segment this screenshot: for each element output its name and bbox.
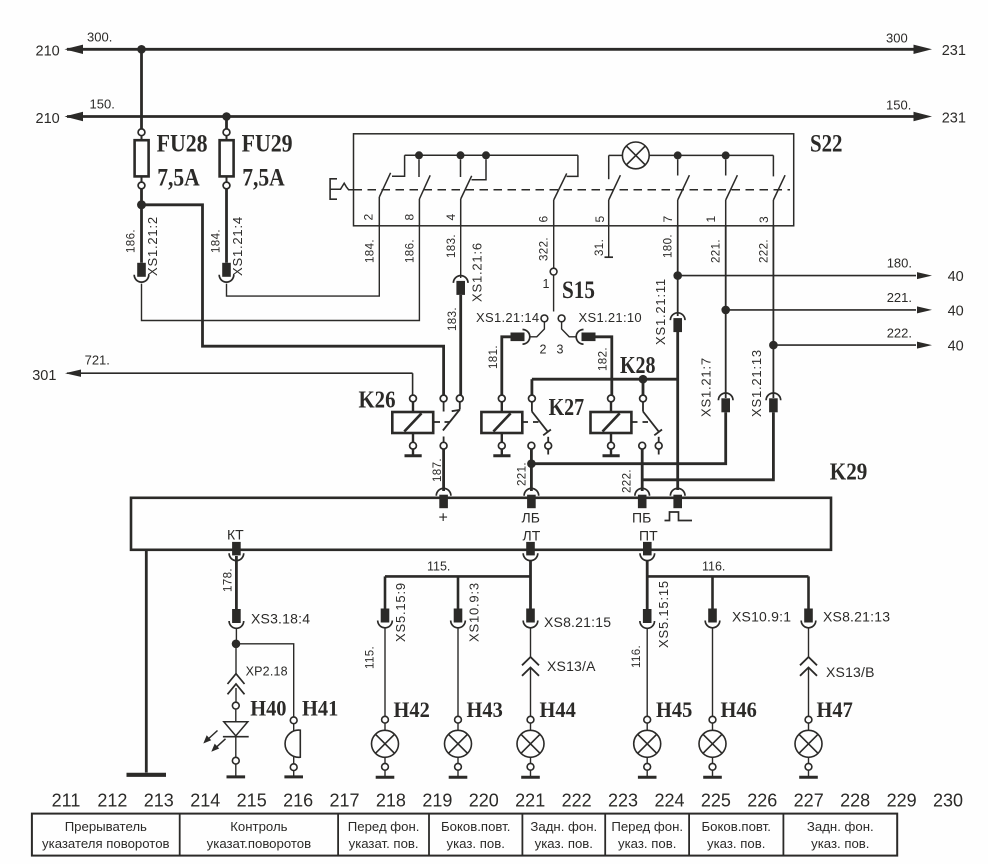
K28 contact blade bbox=[631, 402, 662, 435]
svg-text:223: 223 bbox=[608, 791, 638, 811]
svg-text:2: 2 bbox=[362, 214, 376, 221]
svg-text:224: 224 bbox=[654, 791, 684, 811]
svg-text:1: 1 bbox=[543, 277, 550, 291]
svg-text:301: 301 bbox=[32, 368, 56, 384]
wire from S15 pin 2 to XS1.21:14 bbox=[530, 322, 545, 337]
svg-text:XS1.21:10: XS1.21:10 bbox=[579, 310, 642, 325]
svg-text:187.: 187. bbox=[432, 458, 444, 482]
coordinate ruler 211-230 bbox=[52, 791, 963, 811]
connector XS1.21:14 bbox=[511, 330, 530, 345]
wire 222. to node 40 (right arrow) bbox=[773, 342, 932, 349]
svg-text:4: 4 bbox=[444, 214, 458, 221]
S22 switch contact 5 bbox=[609, 155, 621, 225]
wire 116. to H45 bbox=[646, 628, 648, 716]
wire branch H46 from bus 116 bbox=[711, 576, 714, 608]
node dot bus-pin1 bbox=[722, 151, 730, 159]
svg-text:H42: H42 bbox=[394, 697, 430, 722]
svg-text:150.: 150. bbox=[886, 98, 911, 113]
svg-text:183.: 183. bbox=[446, 234, 458, 258]
svg-text:211: 211 bbox=[52, 791, 81, 811]
wire XS3.18:4 to junction bbox=[235, 628, 237, 644]
svg-text:222.: 222. bbox=[887, 325, 912, 340]
wire to H46 bbox=[712, 628, 714, 717]
flasher unit K29 box bbox=[131, 498, 831, 550]
svg-text:Перед фон.: Перед фон. bbox=[611, 819, 683, 834]
svg-text:2: 2 bbox=[540, 343, 547, 357]
pulse waveform symbol bbox=[665, 512, 693, 521]
terminal 31. of S22 pin 5 bbox=[605, 226, 614, 257]
connector K29 + terminal bbox=[436, 488, 451, 508]
S22 switch contact 3 bbox=[773, 155, 785, 225]
K26 coil top pin bbox=[410, 395, 417, 402]
connector XS5.15:9 bbox=[378, 609, 393, 628]
junction dot 180. bbox=[673, 271, 682, 280]
svg-text:212: 212 bbox=[97, 791, 127, 811]
svg-text:3: 3 bbox=[757, 216, 771, 223]
svg-text:218: 218 bbox=[376, 791, 406, 811]
bus 115 bbox=[385, 575, 531, 578]
connector K29 pulse input terminal bbox=[670, 488, 685, 508]
connector XS3.18:4 bbox=[229, 609, 244, 628]
svg-text:229: 229 bbox=[887, 791, 917, 811]
svg-text:указ. пов.: указ. пов. bbox=[707, 836, 765, 851]
svg-text:7,5A: 7,5A bbox=[157, 164, 200, 191]
svg-text:K29: K29 bbox=[830, 460, 868, 486]
switch block S22 box bbox=[354, 134, 794, 226]
svg-text:Задн. фон.: Задн. фон. bbox=[807, 819, 874, 834]
relay K26 bbox=[359, 388, 464, 456]
svg-text:221.: 221. bbox=[887, 290, 912, 305]
svg-text:181.: 181. bbox=[488, 345, 500, 369]
svg-text:указ. пов.: указ. пов. bbox=[618, 836, 676, 851]
junction dot H40/H41 bbox=[232, 640, 241, 649]
svg-text:H40: H40 bbox=[250, 696, 286, 721]
svg-text:225: 225 bbox=[701, 791, 731, 811]
lamp H45 bbox=[634, 716, 661, 770]
K27 coil top pin bbox=[498, 395, 505, 402]
K27 contact common pin bbox=[529, 395, 536, 402]
legend table bbox=[32, 814, 897, 856]
K27 contact NO pin bbox=[545, 442, 552, 449]
ground (main) bbox=[127, 773, 167, 777]
svg-text:7: 7 bbox=[661, 216, 675, 223]
svg-text:Перед фон.: Перед фон. bbox=[348, 819, 420, 834]
svg-text:40: 40 bbox=[948, 269, 964, 285]
S22 switch contact 4 bbox=[461, 159, 487, 226]
svg-text:3: 3 bbox=[557, 343, 564, 357]
connector XS8.21:15 bbox=[523, 609, 538, 628]
svg-text:Задн. фон.: Задн. фон. bbox=[530, 819, 597, 834]
ground (H47) bbox=[799, 770, 818, 777]
node dot bus-pin7 bbox=[674, 151, 682, 159]
connector K29 PB terminal bbox=[635, 488, 650, 508]
K28 coil bottom pin bbox=[608, 442, 615, 449]
S22 switch contact 2 bbox=[379, 155, 404, 226]
K26 coil bottom pin bbox=[410, 442, 417, 449]
wire 322. from S22 pin 6 to S15 bbox=[553, 226, 555, 268]
fuse FU28 bbox=[135, 129, 149, 263]
svg-text:H45: H45 bbox=[656, 697, 692, 722]
wire 115. to H42 bbox=[384, 628, 386, 717]
svg-text:XS3.18:4: XS3.18:4 bbox=[251, 611, 310, 627]
wire 182. from XS1.21:10 to K28 coil (thick) bbox=[596, 337, 612, 395]
svg-text:31.: 31. bbox=[594, 239, 606, 256]
connector XS1.21:13 bbox=[766, 393, 781, 412]
svg-text:322.: 322. bbox=[539, 237, 551, 261]
wire XS8.21:13 to XS13/B bbox=[808, 628, 810, 657]
svg-text:XS1.21:13: XS1.21:13 bbox=[749, 349, 764, 417]
K26 contact blade pin bbox=[456, 395, 463, 402]
svg-text:XS5.15:9: XS5.15:9 bbox=[393, 582, 408, 642]
node dot bus-pin4 bbox=[457, 151, 465, 159]
svg-text:150.: 150. bbox=[90, 97, 115, 112]
S22 internal bus (left) bbox=[405, 154, 578, 156]
junction dot 221. output bbox=[527, 459, 536, 468]
node dot bus-pin4 tip contact bbox=[482, 151, 490, 159]
svg-text:115.: 115. bbox=[364, 646, 376, 669]
wire XS13/B to H47 bbox=[808, 668, 810, 717]
connector K29 LB terminal bbox=[524, 488, 539, 508]
wire 180. from S22 pin 7 down to K29 bbox=[677, 226, 679, 316]
S22 internal bus (right) bbox=[678, 154, 774, 156]
connector K29 KT terminal bbox=[229, 542, 244, 561]
svg-text:182.: 182. bbox=[598, 347, 610, 371]
connector XS1.21:2 bbox=[134, 263, 149, 282]
svg-text:40: 40 bbox=[948, 304, 964, 320]
wire 181. from XS1.21:14 to K27 coil (thick) bbox=[502, 337, 511, 395]
svg-text:116.: 116. bbox=[702, 560, 725, 574]
svg-text:H47: H47 bbox=[817, 697, 853, 722]
svg-text:+: + bbox=[439, 510, 448, 527]
indicator lamp in S22 bbox=[609, 142, 678, 169]
relay K27 bbox=[481, 395, 584, 456]
junction dot on wire 300 at FU28 feed bbox=[137, 45, 146, 54]
lamp H42 bbox=[372, 716, 399, 770]
ground (H45) bbox=[638, 770, 657, 777]
connector XS1.21:11 bbox=[670, 313, 685, 332]
svg-text:228: 228 bbox=[840, 791, 870, 811]
svg-text:XP2.18: XP2.18 bbox=[246, 665, 288, 679]
K27 contact blade bbox=[522, 402, 551, 435]
wire FU28 feed to K26 contact (thick) bbox=[142, 205, 444, 395]
junction dot on wire 150 at FU29 feed bbox=[222, 112, 231, 121]
svg-text:XS1.21:2: XS1.21:2 bbox=[145, 216, 160, 276]
svg-text:K27: K27 bbox=[549, 395, 585, 421]
svg-text:180.: 180. bbox=[663, 234, 675, 258]
svg-text:222: 222 bbox=[562, 791, 592, 811]
svg-text:300: 300 bbox=[886, 31, 908, 46]
svg-text:40: 40 bbox=[948, 339, 964, 355]
wire from S15 pin 3 to XS1.21:10 bbox=[562, 322, 577, 337]
buzzer H41 bbox=[285, 717, 300, 771]
wire LT down through bus 115 bbox=[529, 561, 532, 610]
svg-text:H43: H43 bbox=[467, 697, 503, 722]
svg-text:115.: 115. bbox=[427, 560, 450, 574]
wire 178. from KT down bbox=[235, 556, 238, 609]
svg-text:226: 226 bbox=[747, 791, 777, 811]
svg-text:219: 219 bbox=[422, 791, 452, 811]
svg-text:H41: H41 bbox=[302, 696, 338, 721]
wire PT down through bus 116 bbox=[646, 561, 649, 610]
ground (H41) bbox=[284, 771, 303, 777]
lamp H43 bbox=[445, 716, 472, 770]
svg-text:XS1.21:4: XS1.21:4 bbox=[230, 216, 245, 276]
svg-text:227: 227 bbox=[794, 791, 824, 811]
svg-text:XS1.21:14: XS1.21:14 bbox=[476, 310, 539, 325]
svg-text:XS5.15:15: XS5.15:15 bbox=[656, 580, 671, 648]
svg-text:XS13/B: XS13/B bbox=[826, 664, 875, 680]
svg-text:178.: 178. bbox=[222, 568, 234, 592]
connector XS1.21:7 bbox=[718, 393, 733, 412]
svg-text:Прерыватель: Прерыватель bbox=[65, 819, 147, 834]
ground wire from K29 left bbox=[145, 550, 148, 773]
svg-text:1: 1 bbox=[704, 216, 718, 223]
coil-to-blade link dashes bbox=[522, 421, 528, 423]
K28 coil bbox=[591, 412, 632, 433]
K27 coil bbox=[481, 412, 522, 433]
svg-text:5: 5 bbox=[593, 216, 607, 223]
svg-text:S22: S22 bbox=[810, 130, 843, 157]
svg-text:ЛТ: ЛТ bbox=[523, 528, 541, 544]
wire XS8.21:15 to XS13/A bbox=[530, 628, 532, 657]
svg-text:указателя поворотов: указателя поворотов bbox=[42, 836, 170, 851]
svg-text:КТ: КТ bbox=[227, 527, 244, 543]
wire 187. from K26 to K29 + bbox=[442, 449, 445, 491]
K26 coil bbox=[392, 412, 433, 433]
wire 186. from XS1.21:2 to S22 pin 8 bbox=[142, 226, 420, 321]
junction dot 221. bbox=[721, 306, 730, 315]
svg-text:Боков.повт.: Боков.повт. bbox=[702, 819, 771, 834]
wire 183. from S22 pin 4 down bbox=[460, 226, 462, 278]
svg-text:указат.поворотов: указат.поворотов bbox=[207, 836, 311, 851]
svg-text:H44: H44 bbox=[540, 697, 576, 722]
S22 switch contact 8 bbox=[419, 159, 430, 226]
wire 180. to node 40 (right arrow) bbox=[678, 272, 932, 279]
wire 183. from XS1.21:6 to K26 contact (thick) bbox=[459, 295, 462, 395]
wire coil pin to coil bbox=[412, 402, 414, 412]
wire to H43 bbox=[457, 628, 459, 717]
wire 222. from K28 output to K29 bbox=[641, 449, 644, 491]
wire 221. from XS1.21:7 to K27 output bbox=[531, 412, 725, 463]
node dot bus-pin8 bbox=[415, 151, 423, 159]
wire coil to bottom pin bbox=[412, 433, 414, 442]
svg-text:указ. пов.: указ. пов. bbox=[447, 836, 505, 851]
connector XS1.21:4 bbox=[219, 263, 234, 282]
svg-text:7,5A: 7,5A bbox=[242, 164, 285, 191]
wire from feed line down to K27 contact bbox=[531, 379, 534, 395]
K26 contact output pin bbox=[440, 442, 447, 449]
svg-text:XS1.21:6: XS1.21:6 bbox=[470, 242, 485, 302]
wire from 300 bus down to FU28 bbox=[140, 49, 143, 129]
K28 contact output pin bbox=[639, 442, 646, 449]
svg-text:Боков.повт.: Боков.повт. bbox=[441, 819, 510, 834]
svg-text:XS10.9:3: XS10.9:3 bbox=[467, 582, 482, 642]
svg-text:XS10.9:1: XS10.9:1 bbox=[732, 609, 791, 625]
K27 coil bottom pin bbox=[498, 442, 505, 449]
wire from 150 bus down to FU29 bbox=[225, 117, 228, 130]
svg-text:6: 6 bbox=[537, 216, 551, 223]
svg-text:184.: 184. bbox=[211, 229, 223, 253]
wire junction to XP2.18 bbox=[235, 644, 237, 674]
connector XS8.21:13 bbox=[801, 609, 816, 628]
svg-text:186.: 186. bbox=[404, 239, 416, 263]
K28 contact common pin bbox=[640, 395, 647, 402]
S22 switch contact 7 bbox=[678, 159, 690, 225]
ground (H40) bbox=[227, 764, 246, 777]
svg-text:116.: 116. bbox=[631, 645, 643, 668]
svg-text:222.: 222. bbox=[621, 469, 633, 493]
mechanical linkage bracket of S22 bbox=[330, 179, 353, 199]
svg-text:K28: K28 bbox=[620, 353, 656, 379]
wire XP2.18 to H40 bbox=[235, 688, 237, 702]
relay K28 bbox=[591, 353, 663, 456]
svg-text:230: 230 bbox=[933, 791, 963, 811]
svg-text:216: 216 bbox=[283, 791, 313, 811]
svg-text:210: 210 bbox=[36, 111, 60, 127]
svg-text:ПБ: ПБ bbox=[632, 510, 651, 526]
wire 150 bus line bbox=[65, 112, 933, 121]
connector XS5.15:15 bbox=[640, 609, 655, 628]
svg-text:220: 220 bbox=[469, 791, 499, 811]
svg-text:231: 231 bbox=[942, 110, 966, 126]
coil-to-blade link dashes bbox=[433, 421, 440, 423]
svg-text:FU29: FU29 bbox=[242, 131, 293, 158]
K28 contact NO pin bbox=[655, 442, 662, 449]
connector XS13/A (chevrons) bbox=[522, 657, 539, 676]
coil-to-blade link dashes bbox=[631, 421, 637, 423]
dashed actuation line of S22 bbox=[354, 189, 791, 191]
junction dot K28 contact feed bbox=[639, 375, 648, 384]
svg-text:184.: 184. bbox=[364, 239, 376, 263]
svg-text:222.: 222. bbox=[758, 239, 770, 263]
arrow left 300 to 210 bbox=[65, 45, 84, 54]
svg-text:XS8.21:13: XS8.21:13 bbox=[823, 609, 890, 625]
svg-text:180.: 180. bbox=[887, 256, 912, 271]
S22 switch contact 1 bbox=[726, 159, 738, 225]
wire 221. from K27 output to K29 bbox=[530, 449, 533, 491]
arrow right 300 to 231 bbox=[914, 45, 933, 54]
wire from feed line down to K28 contact bbox=[642, 379, 645, 395]
bus 116 bbox=[647, 575, 808, 578]
ground (H43) bbox=[449, 770, 468, 777]
connector XP2.18 (chevrons) bbox=[228, 674, 245, 695]
wire 721. to node 301 (left arrow) bbox=[65, 370, 413, 396]
ground (H46) bbox=[703, 770, 722, 777]
svg-text:ПТ: ПТ bbox=[639, 528, 658, 544]
K28 coil top pin bbox=[608, 395, 615, 402]
svg-text:721.: 721. bbox=[85, 353, 110, 368]
wire branch H47 from bus 116 bbox=[807, 576, 810, 608]
svg-text:XS13/A: XS13/A bbox=[547, 658, 596, 674]
K26 contact fixed pin bbox=[440, 395, 447, 402]
svg-text:XS1.21:7: XS1.21:7 bbox=[699, 357, 714, 417]
connector XS13/B (chevrons) bbox=[800, 657, 817, 676]
svg-text:221.: 221. bbox=[516, 462, 528, 486]
svg-text:XS8.21:15: XS8.21:15 bbox=[544, 614, 611, 630]
wire branch H43 from bus 115 bbox=[457, 576, 460, 608]
wire 184. from XS1.21:4 to S22 pin 2 bbox=[227, 226, 380, 296]
ground (H42) bbox=[376, 770, 395, 777]
connector XS10.9:3 bbox=[451, 609, 466, 628]
S22 switch contact 6 bbox=[554, 155, 578, 226]
ground (K27 coil) bbox=[493, 449, 510, 456]
lamp H44 bbox=[517, 716, 544, 770]
LED emission arrows bbox=[203, 731, 225, 752]
wire branch H42 from bus 115 bbox=[384, 576, 387, 608]
wire 222. from XS1.21:13 to K28 output bbox=[642, 412, 773, 480]
switch S15 bbox=[541, 268, 565, 322]
connector XS1.21:10 bbox=[576, 330, 595, 345]
wire 221. to node 40 (right arrow) bbox=[726, 306, 932, 313]
svg-text:231: 231 bbox=[942, 43, 966, 59]
svg-text:300.: 300. bbox=[87, 30, 112, 45]
svg-text:K26: K26 bbox=[359, 388, 396, 414]
arrow left 150 to 210 bbox=[65, 112, 84, 121]
fuse FU29 bbox=[220, 129, 234, 263]
svg-text:указ. пов.: указ. пов. bbox=[811, 836, 869, 851]
svg-text:S15: S15 bbox=[562, 277, 595, 304]
wire 180. feed to K27/K28 contacts bbox=[532, 378, 678, 381]
connector XS10.9:1 bbox=[705, 609, 720, 628]
svg-text:221: 221 bbox=[515, 791, 545, 811]
svg-text:213: 213 bbox=[144, 791, 174, 811]
ground (K26 coil) bbox=[405, 449, 422, 456]
svg-text:8: 8 bbox=[403, 214, 417, 221]
wire 221. from S22 pin 1 down bbox=[725, 226, 727, 398]
svg-text:указат. пов.: указат. пов. bbox=[349, 836, 419, 851]
svg-text:221.: 221. bbox=[711, 239, 723, 263]
K27 contact output pin bbox=[528, 442, 535, 449]
svg-text:ЛБ: ЛБ bbox=[522, 510, 540, 526]
arrow right 150 to 231 bbox=[914, 112, 933, 121]
connector K29 PT terminal bbox=[640, 542, 655, 561]
junction dot 222. bbox=[769, 341, 778, 350]
K26 contact blade bbox=[433, 402, 460, 431]
svg-text:Контроль: Контроль bbox=[230, 819, 287, 834]
junction dot below FU28 bbox=[137, 200, 146, 209]
ground (K28 coil) bbox=[603, 449, 620, 456]
svg-text:210: 210 bbox=[36, 44, 60, 60]
svg-text:186.: 186. bbox=[126, 229, 138, 253]
svg-text:указ. пов.: указ. пов. bbox=[535, 836, 593, 851]
wire XS13/A to H44 bbox=[530, 668, 532, 717]
svg-text:H46: H46 bbox=[721, 697, 757, 722]
svg-text:214: 214 bbox=[190, 791, 220, 811]
lamp H47 bbox=[795, 716, 822, 770]
wire 222. from S22 pin 3 down bbox=[772, 226, 774, 398]
svg-text:183.: 183. bbox=[447, 307, 459, 331]
wire to H41 bbox=[236, 644, 294, 717]
indicator LED H40 bbox=[203, 702, 248, 764]
lamp H46 bbox=[699, 716, 726, 770]
connector K29 LT terminal bbox=[523, 542, 538, 561]
svg-text:217: 217 bbox=[329, 791, 359, 811]
svg-text:215: 215 bbox=[237, 791, 267, 811]
wire 300 bus line bbox=[65, 45, 933, 54]
svg-text:XS1.21:11: XS1.21:11 bbox=[653, 278, 668, 345]
connector XS1.21:6 bbox=[453, 276, 468, 295]
svg-text:FU28: FU28 bbox=[157, 131, 208, 158]
ground (H44) bbox=[521, 770, 540, 777]
